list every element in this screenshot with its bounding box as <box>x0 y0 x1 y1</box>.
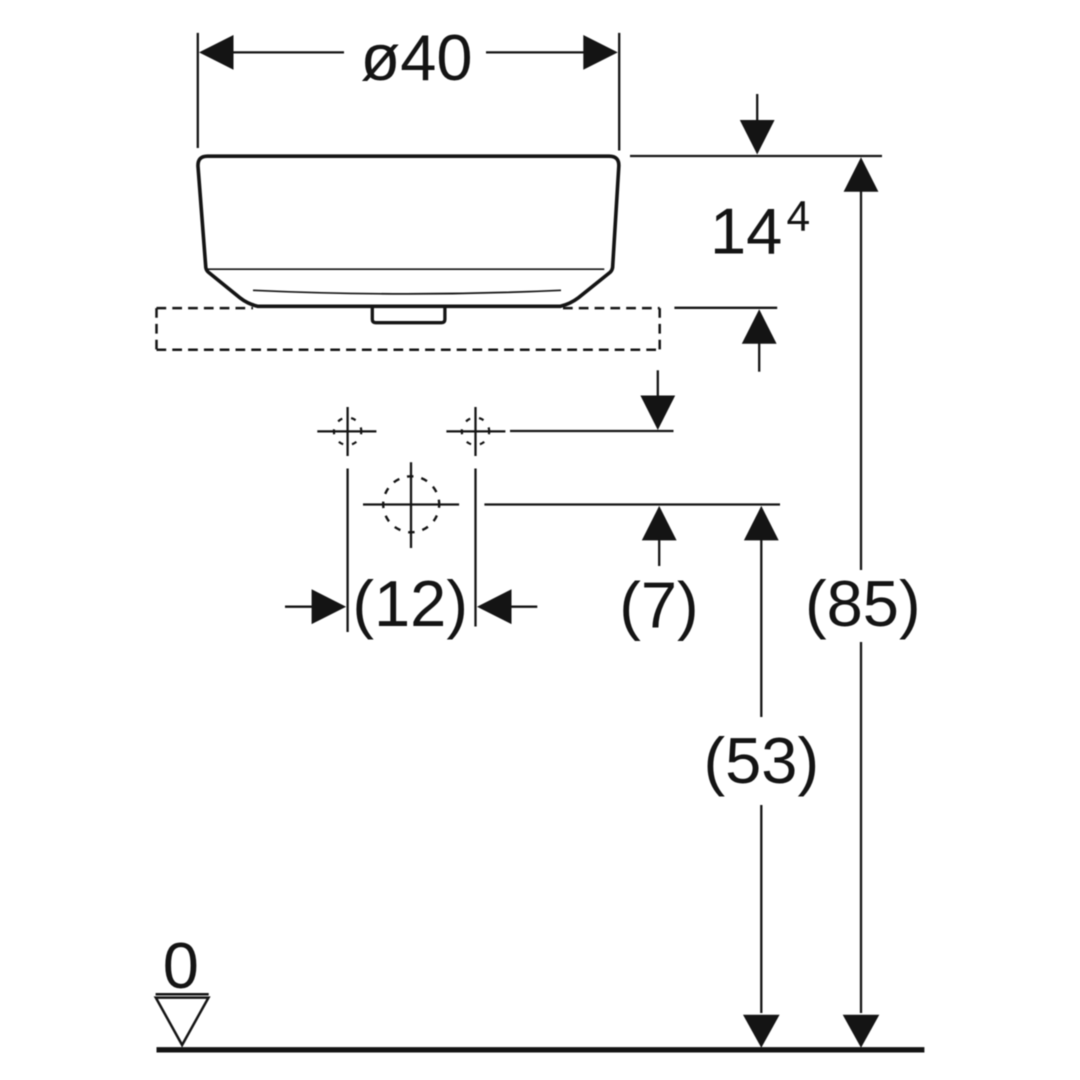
dimension (7): lower arrow (up) <box>658 538 660 566</box>
dimension o40: arrowhead right <box>583 35 618 70</box>
drain hole: dashed circle <box>383 476 439 532</box>
svg-text:(85): (85) <box>805 567 921 640</box>
dimension o40: arrowhead left <box>199 35 234 70</box>
dimension o40: extension line left <box>197 33 199 148</box>
svg-text:14: 14 <box>710 195 782 268</box>
washbasin outer outline <box>198 156 619 306</box>
dimension (53): vertical line lower part <box>760 805 762 1013</box>
dimension (85): vertical line upper part <box>860 190 862 570</box>
dimension (12): right arrow (points left) <box>510 606 537 608</box>
svg-text:0: 0 <box>163 929 199 1002</box>
basin inner profile line upper <box>208 268 605 270</box>
tap hole marker right: dashed circle <box>462 418 489 445</box>
dimension (12): extension line right <box>474 469 476 627</box>
svg-text:ø40: ø40 <box>360 21 472 94</box>
floor line <box>157 1047 925 1052</box>
dimension (53): bottom arrowhead <box>743 1015 780 1048</box>
dimension o40: dimension line <box>232 51 344 53</box>
svg-text:(7): (7) <box>619 568 698 641</box>
datum 0: open triangle <box>156 998 209 1045</box>
drain fitting under basin <box>372 308 445 323</box>
svg-text:(53): (53) <box>704 724 820 797</box>
dimension 14.4: lower arrow (up) <box>758 342 760 372</box>
dimension (53): vertical line upper part <box>760 538 762 717</box>
dimension (7): upper arrow (down) <box>657 370 659 397</box>
dimension 14.4: extension line at basin top <box>630 155 882 157</box>
dimension (85): top arrowhead <box>844 157 879 192</box>
basin inner profile line lower <box>253 290 561 294</box>
tap hole marker left: cross lines <box>346 407 348 456</box>
countertop dashed rectangle <box>157 308 660 350</box>
dimension 14.4: upper arrow (down) <box>756 94 758 122</box>
dimension (85): bottom arrowhead <box>843 1015 880 1048</box>
dimension (12): extension line left <box>346 469 348 633</box>
drain hole: cross lines <box>410 462 412 548</box>
dimension (85): vertical line lower part <box>860 642 862 1013</box>
dimension 14.4: extension line at countertop top <box>674 307 777 309</box>
tap hole marker left: dashed circle <box>334 418 361 445</box>
dimension o40: extension line right <box>618 33 620 151</box>
datum 0: underline <box>156 993 209 996</box>
dimension (7): tap axis line <box>510 430 674 432</box>
dimension (7): drain axis line <box>484 503 780 505</box>
dimension (12): left arrow (points right) <box>285 606 313 608</box>
tap hole marker right: cross lines <box>474 407 476 456</box>
svg-text:(12): (12) <box>352 567 468 640</box>
dimension (53): top arrowhead <box>744 506 779 541</box>
svg-text:4: 4 <box>787 194 811 241</box>
